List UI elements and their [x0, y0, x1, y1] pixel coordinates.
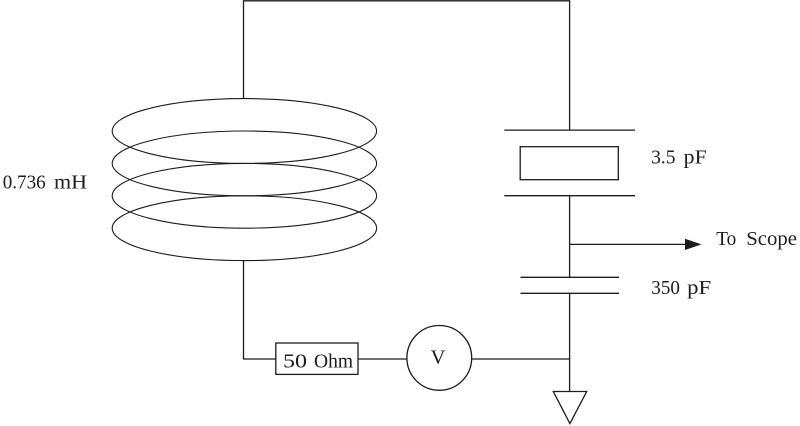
svg-text:350: 350: [651, 277, 680, 299]
svg-text:Ohm: Ohm: [314, 350, 353, 372]
wire voltmeter to right vertical: [472, 358, 571, 360]
ground symbol triangle: [553, 392, 586, 424]
wire crystal to capacitor: [569, 196, 571, 278]
wire from coil bottom down: [243, 261, 245, 359]
voltage source V1 circle: [407, 326, 472, 391]
node tap to scope junction: [570, 243, 686, 245]
wire capacitor to ground: [569, 293, 571, 391]
wire resistor to voltmeter: [358, 358, 407, 360]
inductor L1 coil turn 2: [112, 131, 376, 196]
resistor R1 box 50 Ohm: [276, 343, 358, 374]
wire top horizontal: [243, 0, 570, 2]
wire bottom left horizontal to resistor: [243, 358, 276, 360]
inductor L1 coil turn 1: [112, 99, 376, 164]
svg-text:pF: pF: [687, 277, 711, 299]
svg-text:50: 50: [283, 350, 307, 372]
crystal X1 top plate: [504, 129, 635, 131]
crystal X1 bottom plate: [504, 195, 635, 197]
svg-text:mH: mH: [54, 171, 87, 193]
svg-text:3.5: 3.5: [651, 147, 675, 169]
inductor L1 coil turn 4: [112, 196, 376, 261]
wire left vertical to coil: [243, 1, 245, 99]
capacitor C1 bottom plate: [521, 292, 620, 294]
crystal X1 body rectangle: [520, 147, 618, 180]
inductor L1 coil turn 3: [112, 163, 376, 228]
capacitor C1 top plate: [521, 276, 620, 278]
wire right vertical top: [569, 1, 571, 130]
svg-text:To: To: [716, 228, 736, 250]
arrowhead to scope: [685, 239, 702, 250]
svg-text:pF: pF: [684, 147, 707, 169]
svg-text:V: V: [431, 347, 446, 369]
svg-text:Scope: Scope: [746, 228, 797, 250]
svg-text:0.736: 0.736: [3, 171, 46, 193]
